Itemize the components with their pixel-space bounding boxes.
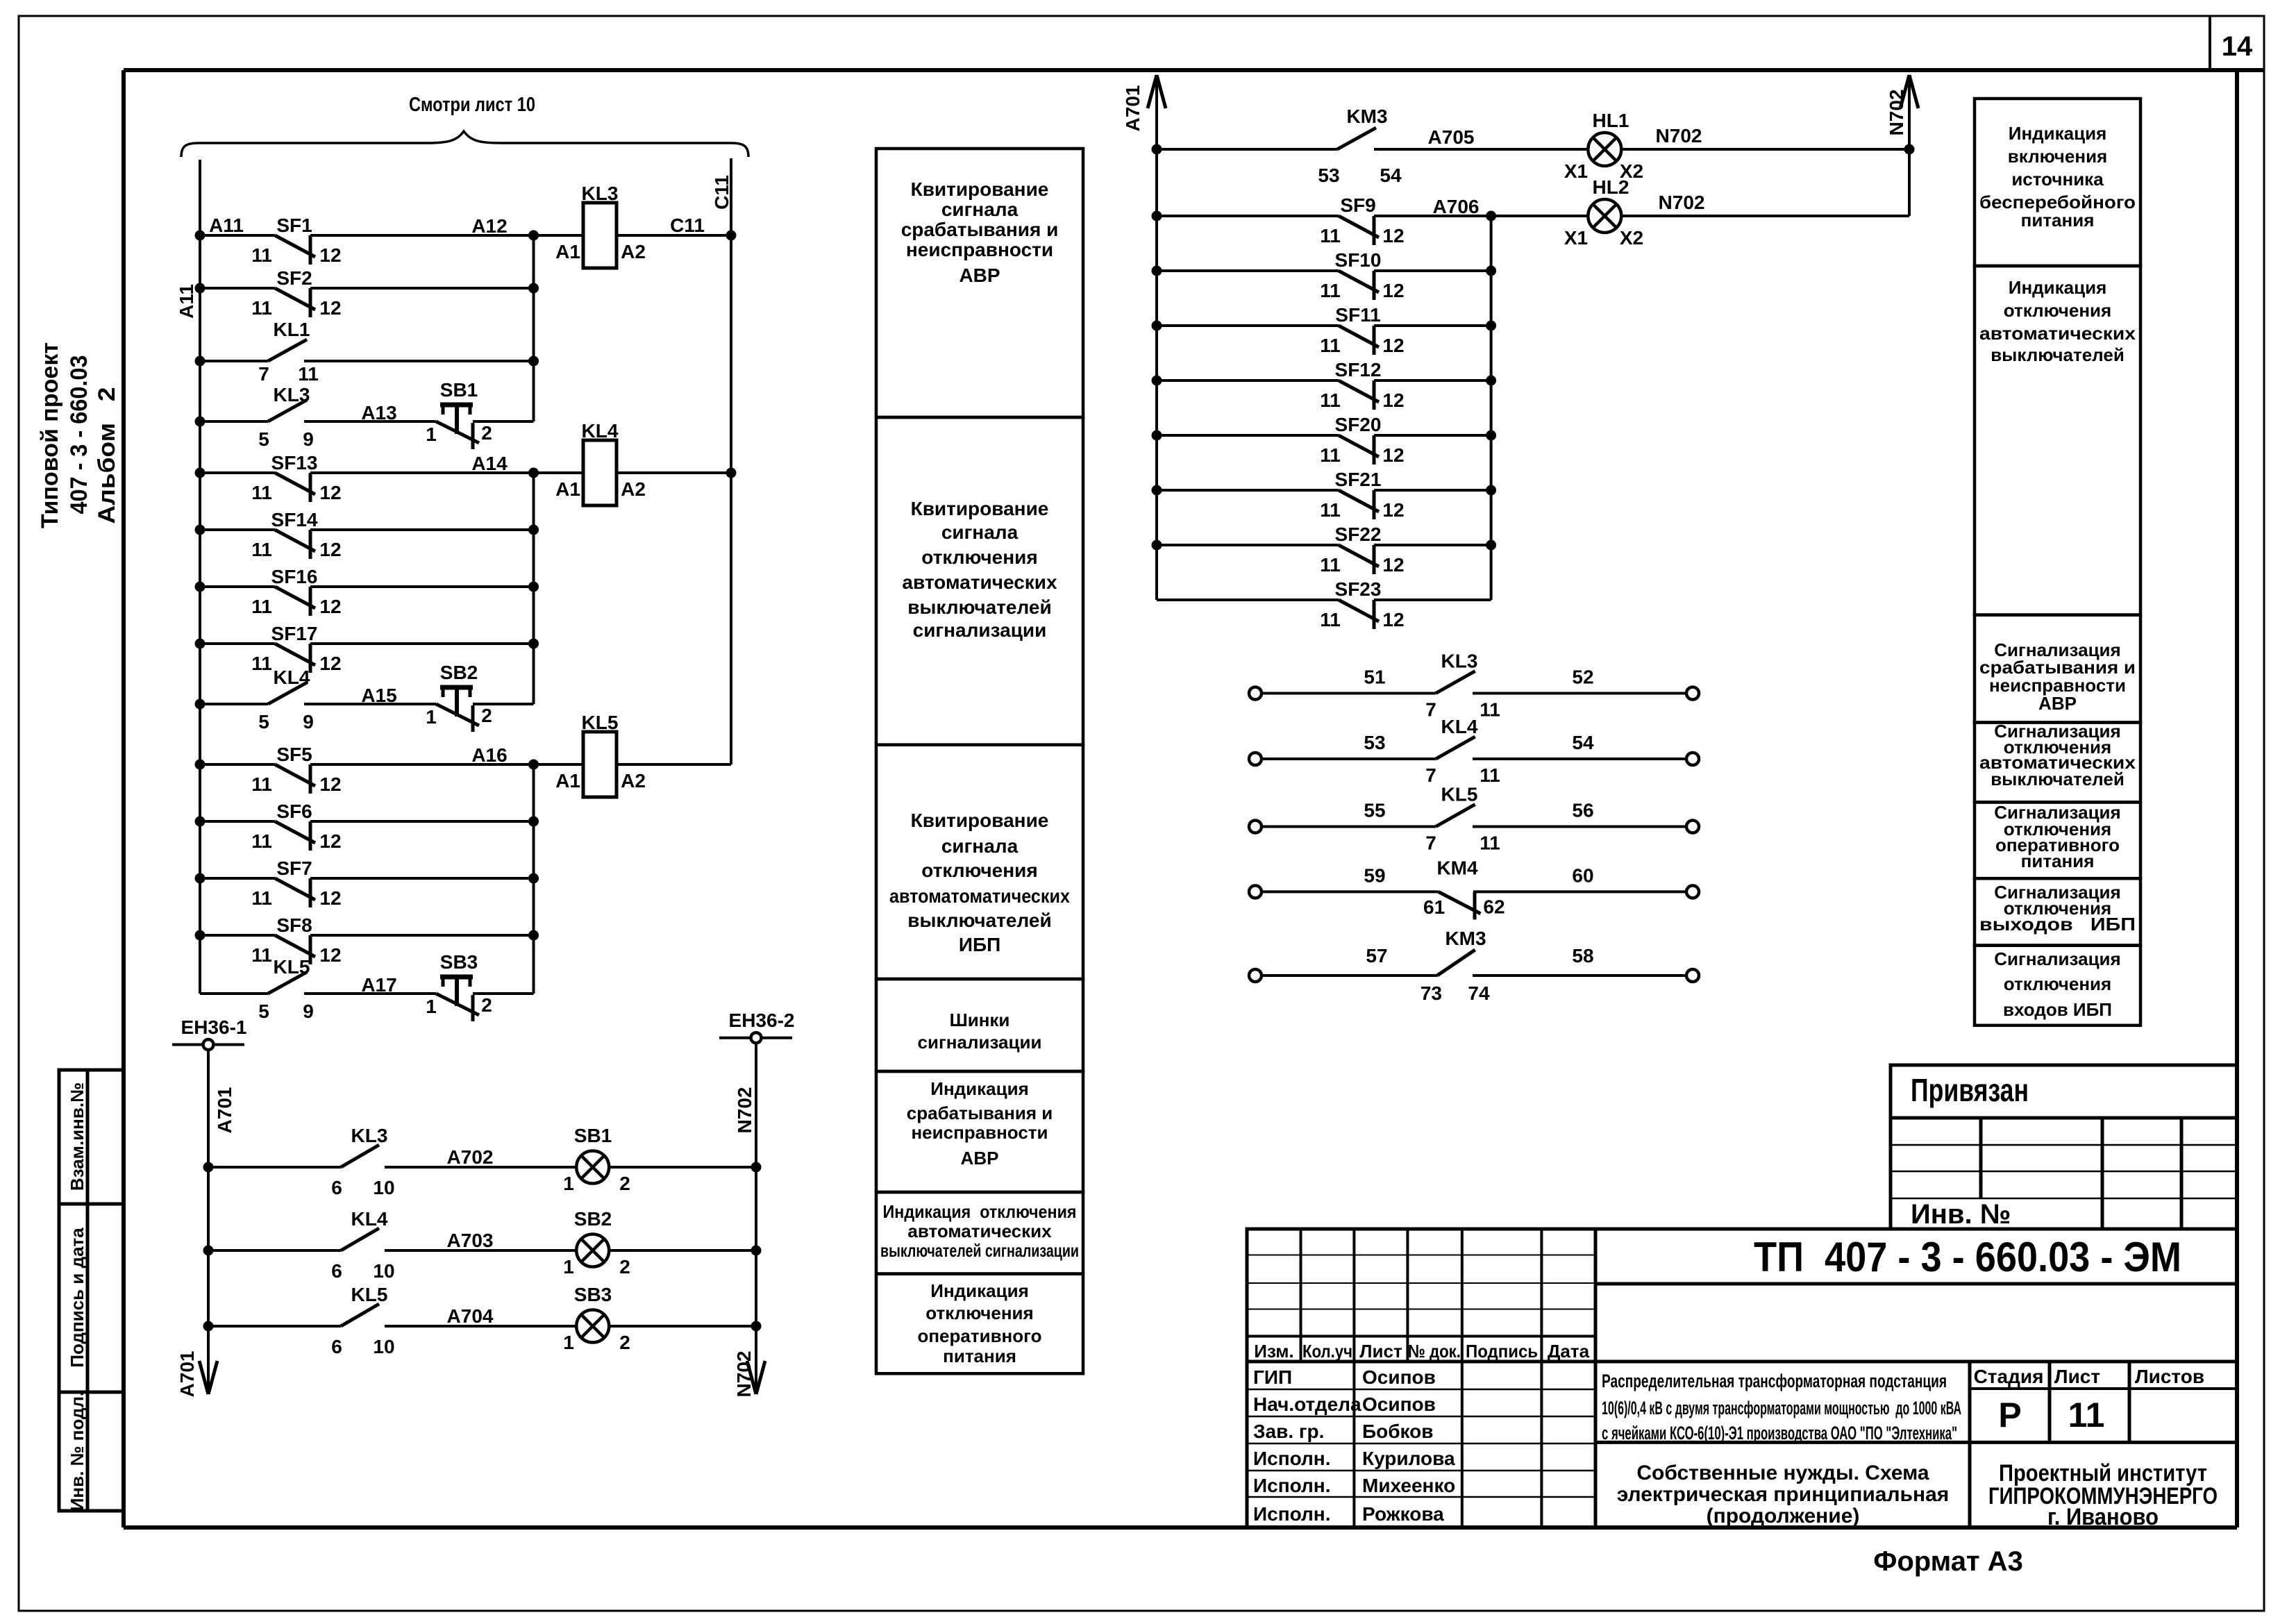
svg-text:11: 11 xyxy=(251,297,272,319)
svg-text:автоматоматических: автоматоматических xyxy=(889,885,1070,907)
svg-text:Индикация: Индикация xyxy=(2009,123,2107,144)
svg-text:KL5: KL5 xyxy=(1441,784,1478,805)
svg-text:SF20: SF20 xyxy=(1335,414,1382,435)
svg-text:58: 58 xyxy=(1572,945,1593,966)
svg-text:6: 6 xyxy=(331,1336,342,1357)
bus C11 xyxy=(730,158,732,764)
relay contact KL3 51-52 xyxy=(1249,687,1262,700)
svg-text:56: 56 xyxy=(1572,800,1593,821)
svg-text:Изм.: Изм. xyxy=(1254,1341,1293,1362)
svg-text:Лист: Лист xyxy=(1359,1341,1402,1362)
breaker contact SF9 xyxy=(1157,215,1339,217)
brace xyxy=(181,131,748,157)
lamp SB3 xyxy=(576,1310,609,1343)
svg-text:12: 12 xyxy=(319,297,341,319)
svg-text:2: 2 xyxy=(619,1332,630,1353)
svg-text:11: 11 xyxy=(251,887,272,909)
svg-text:12: 12 xyxy=(1382,444,1404,466)
svg-text:Листов: Листов xyxy=(2135,1366,2204,1387)
relay coil KL5 xyxy=(583,732,617,797)
wire KL3 A2 to C11 xyxy=(617,234,731,237)
svg-text:5: 5 xyxy=(258,711,269,733)
svg-text:62: 62 xyxy=(1483,896,1505,917)
svg-text:EH36-2: EH36-2 xyxy=(729,1010,795,1031)
svg-text:2: 2 xyxy=(481,994,492,1016)
svg-text:11: 11 xyxy=(1320,390,1341,411)
svg-text:Рожкова: Рожкова xyxy=(1362,1503,1444,1525)
svg-text:Осипов: Осипов xyxy=(1362,1393,1436,1415)
relay contact KM3 53-54 xyxy=(1157,148,1337,151)
svg-text:KL4: KL4 xyxy=(351,1208,388,1230)
svg-text:SF9: SF9 xyxy=(1340,194,1375,216)
lamp HL1 xyxy=(1588,133,1621,166)
svg-text:KL3: KL3 xyxy=(351,1125,388,1146)
svg-text:54: 54 xyxy=(1572,732,1594,753)
svg-text:Нач.отдела: Нач.отдела xyxy=(1253,1393,1361,1415)
title block main xyxy=(1247,1229,1595,1527)
svg-text:11: 11 xyxy=(1320,499,1341,521)
svg-text:SF14: SF14 xyxy=(271,509,318,530)
relay contact KL5 55-56 xyxy=(1249,821,1262,833)
svg-text:10: 10 xyxy=(373,1177,394,1198)
svg-text:11: 11 xyxy=(251,944,272,966)
relay contact KL3 xyxy=(208,1166,341,1169)
wire KL5 A2 to C11 xyxy=(617,763,731,766)
svg-text:C11: C11 xyxy=(711,175,732,210)
svg-text:A2: A2 xyxy=(621,478,646,500)
svg-text:SF1: SF1 xyxy=(276,215,312,236)
collector right ladder xyxy=(1490,216,1493,600)
svg-text:SB1: SB1 xyxy=(440,379,478,401)
svg-text:Р: Р xyxy=(1998,1396,2021,1434)
svg-text:Зав. гр.: Зав. гр. xyxy=(1253,1421,1324,1442)
relay coil KL4 xyxy=(583,440,617,505)
svg-text:2: 2 xyxy=(481,705,492,726)
lamp HL2 xyxy=(1588,199,1621,233)
svg-text:A16: A16 xyxy=(471,744,507,766)
svg-text:автоматических: автоматических xyxy=(902,571,1057,593)
breaker contact SF6 xyxy=(200,820,275,823)
svg-text:KM3: KM3 xyxy=(1346,106,1387,127)
svg-text:N702: N702 xyxy=(1886,90,1907,136)
svg-text:73: 73 xyxy=(1421,982,1442,1004)
svg-text:6: 6 xyxy=(331,1260,342,1282)
svg-text:A705: A705 xyxy=(1428,126,1475,148)
svg-text:SF6: SF6 xyxy=(276,801,312,822)
bus A701 right xyxy=(1155,75,1158,600)
svg-text:с ячейками КСО-6(10)-Э1 произв: с ячейками КСО-6(10)-Э1 производства ОАО… xyxy=(1602,1423,1957,1443)
svg-text:11: 11 xyxy=(251,653,272,674)
svg-text:12: 12 xyxy=(319,244,341,266)
breaker contact SF2 xyxy=(200,287,275,290)
svg-text:11: 11 xyxy=(251,244,272,266)
svg-text:A1: A1 xyxy=(555,478,580,500)
svg-text:10(6)/0,4 кВ с двумя трансформ: 10(6)/0,4 кВ с двумя трансформаторами мо… xyxy=(1602,1398,1961,1418)
svg-text:Смотри лист 10: Смотри лист 10 xyxy=(409,94,535,116)
svg-text:12: 12 xyxy=(1382,554,1404,576)
svg-text:1: 1 xyxy=(563,1173,574,1194)
svg-text:12: 12 xyxy=(1382,335,1404,356)
svg-text:A14: A14 xyxy=(471,453,508,474)
svg-text:Собственные нужды. Схема: Собственные нужды. Схема xyxy=(1636,1462,1929,1484)
svg-text:12: 12 xyxy=(1382,609,1404,630)
svg-text:Подпись и дата: Подпись и дата xyxy=(67,1228,87,1368)
svg-text:12: 12 xyxy=(1382,225,1404,246)
svg-text:EH36-1: EH36-1 xyxy=(181,1016,247,1038)
svg-text:A703: A703 xyxy=(447,1230,494,1251)
left attachment table xyxy=(59,1070,124,1511)
relay contact KM4 59-60 xyxy=(1249,885,1262,898)
relay contact KL4 xyxy=(208,1249,341,1252)
wire KL4 A2 to C11 xyxy=(617,471,731,474)
svg-text:оперативного: оперативного xyxy=(917,1325,1041,1346)
svg-text:59: 59 xyxy=(1364,864,1385,886)
lamp SB1 xyxy=(576,1151,609,1184)
svg-text:11: 11 xyxy=(251,596,272,617)
svg-text:X1: X1 xyxy=(1564,227,1588,249)
svg-text:A701: A701 xyxy=(214,1087,235,1134)
wire A14 xyxy=(534,471,584,474)
breaker contact SF23 xyxy=(1157,598,1339,601)
svg-text:11: 11 xyxy=(1480,699,1500,721)
svg-text:выключателей: выключателей xyxy=(1991,344,2125,365)
svg-text:Бобков: Бобков xyxy=(1362,1421,1433,1442)
button SB2 xyxy=(304,703,436,705)
svg-text:Исполн.: Исполн. xyxy=(1253,1503,1331,1525)
description cell xyxy=(1595,1441,2237,1444)
breaker contact SF14 xyxy=(200,528,275,531)
svg-text:12: 12 xyxy=(319,653,341,674)
svg-text:Квитирование: Квитирование xyxy=(911,498,1049,519)
svg-text:6: 6 xyxy=(331,1177,342,1198)
svg-text:12: 12 xyxy=(319,887,341,909)
svg-text:11: 11 xyxy=(1480,764,1500,786)
svg-text:53: 53 xyxy=(1318,165,1339,186)
svg-text:12: 12 xyxy=(319,830,341,852)
svg-text:A11: A11 xyxy=(209,215,244,236)
svg-text:Распределительная трансформато: Распределительная трансформаторная подст… xyxy=(1602,1371,1947,1391)
svg-text:Индикация: Индикация xyxy=(930,1078,1029,1099)
svg-text:Индикация: Индикация xyxy=(930,1280,1029,1301)
svg-text:Исполн.: Исполн. xyxy=(1253,1448,1331,1469)
svg-text:сигнала: сигнала xyxy=(941,521,1019,543)
svg-text:5: 5 xyxy=(258,428,269,450)
svg-text:N702: N702 xyxy=(1659,192,1705,213)
svg-text:2: 2 xyxy=(481,422,492,444)
collector group 3 xyxy=(533,764,535,994)
svg-text:ИБП: ИБП xyxy=(959,934,1000,955)
svg-text:74: 74 xyxy=(1468,982,1490,1004)
svg-text:Стадия: Стадия xyxy=(1974,1366,2044,1387)
svg-text:г. Иваново: г. Иваново xyxy=(2047,1504,2159,1530)
svg-text:(продолжение): (продолжение) xyxy=(1707,1505,1860,1527)
svg-text:SF17: SF17 xyxy=(271,623,318,644)
svg-text:12: 12 xyxy=(1382,280,1404,301)
svg-text:автоматических: автоматических xyxy=(1979,323,2136,344)
svg-text:53: 53 xyxy=(1364,732,1385,753)
svg-text:C11: C11 xyxy=(670,215,705,236)
svg-text:ГИП: ГИП xyxy=(1253,1366,1292,1388)
svg-text:SF22: SF22 xyxy=(1335,524,1382,545)
svg-text:12: 12 xyxy=(1382,499,1404,521)
svg-text:отключения: отключения xyxy=(2004,300,2111,321)
svg-text:61: 61 xyxy=(1423,896,1445,918)
svg-text:A2: A2 xyxy=(621,241,646,262)
svg-text:KL5: KL5 xyxy=(351,1284,388,1305)
svg-text:11: 11 xyxy=(1480,832,1500,854)
breaker contact SF1 xyxy=(200,234,275,237)
svg-text:Подпись: Подпись xyxy=(1466,1341,1538,1362)
svg-text:KL5: KL5 xyxy=(274,956,310,978)
svg-text:60: 60 xyxy=(1572,864,1593,886)
svg-text:Типовой проект: Типовой проект xyxy=(37,342,63,528)
svg-text:7: 7 xyxy=(258,363,269,385)
bus A701 left xyxy=(207,1051,210,1395)
svg-text:10: 10 xyxy=(373,1260,394,1282)
svg-text:X2: X2 xyxy=(1620,227,1643,249)
svg-text:2: 2 xyxy=(619,1256,630,1278)
svg-text:7: 7 xyxy=(1425,832,1436,854)
svg-text:ТП 407 - 3 - 660.03 - ЭМ: ТП 407 - 3 - 660.03 - ЭМ xyxy=(1754,1234,2181,1280)
svg-text:1: 1 xyxy=(563,1332,574,1353)
svg-text:7: 7 xyxy=(1425,699,1436,721)
svg-text:Взам.инв.№: Взам.инв.№ xyxy=(67,1082,87,1191)
svg-text:Дата: Дата xyxy=(1548,1341,1590,1362)
svg-text:выключателей: выключателей xyxy=(1991,769,2125,789)
collector group 1 xyxy=(533,235,535,421)
svg-text:SF13: SF13 xyxy=(271,452,318,474)
svg-text:Исполн.: Исполн. xyxy=(1253,1475,1331,1496)
function box column middle xyxy=(876,149,1083,417)
svg-text:11: 11 xyxy=(1320,554,1341,576)
svg-text:HL1: HL1 xyxy=(1593,110,1629,131)
svg-text:5: 5 xyxy=(258,1001,269,1022)
svg-text:N702: N702 xyxy=(734,1087,755,1134)
button SB3 xyxy=(304,992,436,995)
arrow N702 up xyxy=(1900,75,1909,108)
bus A11 xyxy=(199,160,201,994)
svg-text:SF10: SF10 xyxy=(1335,249,1382,271)
breaker contact SF12 xyxy=(1157,379,1339,382)
svg-text:выключателей: выключателей xyxy=(907,910,1051,931)
svg-text:Квитирование: Квитирование xyxy=(911,810,1049,831)
svg-text:Курилова: Курилова xyxy=(1362,1448,1455,1469)
svg-text:SF8: SF8 xyxy=(276,914,312,936)
svg-text:A706: A706 xyxy=(1433,196,1480,217)
arrow A701 up xyxy=(1148,75,1157,108)
svg-text:электрическая принципиальная: электрическая принципиальная xyxy=(1617,1483,1950,1506)
breaker contact SF7 xyxy=(200,877,275,880)
svg-text:KM4: KM4 xyxy=(1436,857,1478,878)
svg-text:срабатывания и: срабатывания и xyxy=(907,1103,1053,1123)
svg-text:52: 52 xyxy=(1572,667,1593,688)
svg-text:№ док.: № док. xyxy=(1408,1341,1461,1362)
wire A16 xyxy=(534,763,584,766)
breaker contact SF22 xyxy=(1157,544,1339,546)
svg-text:питания: питания xyxy=(2021,210,2095,231)
svg-text:источника: источника xyxy=(2011,169,2104,190)
svg-text:выходов ИБП: выходов ИБП xyxy=(1979,914,2136,935)
svg-text:SB2: SB2 xyxy=(574,1208,612,1230)
svg-text:10: 10 xyxy=(373,1336,394,1357)
svg-text:14: 14 xyxy=(2222,31,2253,62)
breaker contact SF13 xyxy=(200,471,275,474)
svg-text:9: 9 xyxy=(303,428,314,450)
breaker contact SF5 xyxy=(200,763,275,766)
svg-text:A1: A1 xyxy=(555,241,580,262)
relay contact KM3 57-58 xyxy=(1249,969,1262,982)
svg-text:KL4: KL4 xyxy=(582,420,619,442)
svg-text:сигнала: сигнала xyxy=(941,199,1019,220)
svg-text:2: 2 xyxy=(619,1173,630,1194)
svg-text:12: 12 xyxy=(319,482,341,503)
breaker contact SF16 xyxy=(200,585,275,588)
svg-text:неисправности: неисправности xyxy=(906,239,1053,260)
svg-text:51: 51 xyxy=(1364,667,1385,688)
function box column right xyxy=(1975,99,2140,266)
svg-text:KL4: KL4 xyxy=(274,667,310,688)
svg-text:SF16: SF16 xyxy=(271,566,318,587)
svg-text:11: 11 xyxy=(1320,335,1341,356)
svg-text:11: 11 xyxy=(251,482,272,503)
svg-text:1: 1 xyxy=(426,706,437,728)
svg-text:N702: N702 xyxy=(733,1351,755,1398)
terminal EH36-2 xyxy=(719,1037,792,1039)
svg-text:X1: X1 xyxy=(1564,160,1588,182)
relay contact KL5 xyxy=(208,1325,341,1328)
bus N702 left xyxy=(755,1044,757,1394)
breaker contact SF21 xyxy=(1157,489,1339,492)
svg-text:входов ИБП: входов ИБП xyxy=(2003,999,2112,1020)
svg-text:12: 12 xyxy=(319,773,341,795)
svg-text:9: 9 xyxy=(303,1001,314,1022)
svg-text:57: 57 xyxy=(1366,945,1387,966)
terminal EH36-1 xyxy=(172,1044,244,1046)
lamp SB2 xyxy=(576,1234,609,1267)
svg-text:11: 11 xyxy=(298,363,319,385)
svg-text:Инв. № подл.: Инв. № подл. xyxy=(67,1391,87,1512)
svg-text:Лист: Лист xyxy=(2054,1366,2100,1387)
svg-text:сигнала: сигнала xyxy=(941,835,1019,857)
svg-text:KL5: KL5 xyxy=(582,712,619,733)
svg-text:1: 1 xyxy=(426,424,437,445)
svg-text:питания: питания xyxy=(943,1346,1016,1366)
svg-text:12: 12 xyxy=(319,539,341,560)
arrow A701 down xyxy=(199,1361,208,1394)
relay contact KL1 xyxy=(200,360,268,362)
title block Привязан xyxy=(1891,1065,2237,1229)
collector group 2 xyxy=(533,473,535,704)
svg-text:АВР: АВР xyxy=(2038,693,2077,714)
svg-text:11: 11 xyxy=(251,830,272,852)
svg-text:Осипов: Осипов xyxy=(1362,1366,1436,1388)
svg-text:SB3: SB3 xyxy=(574,1284,612,1305)
svg-text:11: 11 xyxy=(251,539,272,560)
breaker contact SF11 xyxy=(1157,324,1339,327)
svg-text:54: 54 xyxy=(1380,165,1402,186)
svg-text:A702: A702 xyxy=(447,1146,494,1168)
svg-text:SF7: SF7 xyxy=(276,857,312,879)
svg-text:KM3: KM3 xyxy=(1445,928,1486,949)
breaker contact SF20 xyxy=(1157,434,1339,437)
svg-text:Квитирование: Квитирование xyxy=(911,178,1049,200)
svg-text:KL1: KL1 xyxy=(274,319,310,340)
svg-text:A12: A12 xyxy=(471,215,507,237)
svg-text:SF23: SF23 xyxy=(1335,578,1382,600)
svg-text:A1: A1 xyxy=(555,770,580,792)
svg-text:407 - 3 - 660.03: 407 - 3 - 660.03 xyxy=(66,355,92,514)
svg-text:HL2: HL2 xyxy=(1593,176,1629,198)
button SB1 xyxy=(304,420,436,423)
svg-text:Альбом 2: Альбом 2 xyxy=(94,387,120,524)
svg-text:SF21: SF21 xyxy=(1335,469,1382,490)
svg-text:12: 12 xyxy=(1382,390,1404,411)
svg-text:выключателей: выключателей xyxy=(907,596,1051,618)
svg-text:отключения: отключения xyxy=(2004,973,2111,994)
svg-text:отключения: отключения xyxy=(921,546,1037,568)
relay contact KL4 xyxy=(200,703,268,705)
svg-text:N702: N702 xyxy=(1656,125,1702,147)
svg-text:Кол.уч: Кол.уч xyxy=(1302,1341,1352,1362)
svg-text:SF11: SF11 xyxy=(1335,304,1380,326)
bus N702 right xyxy=(1908,75,1911,216)
breaker contact SF10 xyxy=(1157,269,1339,272)
svg-text:Сигнализация: Сигнализация xyxy=(1994,948,2120,969)
svg-text:неисправности: неисправности xyxy=(911,1122,1048,1143)
svg-text:KL3: KL3 xyxy=(1441,651,1478,672)
svg-text:55: 55 xyxy=(1364,800,1385,821)
svg-text:SB2: SB2 xyxy=(440,662,478,683)
svg-text:11: 11 xyxy=(251,773,272,795)
relay contact KL4 53-54 xyxy=(1249,753,1262,765)
svg-text:Индикация: Индикация xyxy=(2009,277,2107,298)
svg-text:отключения: отключения xyxy=(921,860,1037,881)
svg-text:Инв. №: Инв. № xyxy=(1911,1199,2011,1230)
svg-text:включения: включения xyxy=(2008,146,2107,167)
svg-text:11: 11 xyxy=(2068,1396,2105,1434)
svg-text:11: 11 xyxy=(1320,609,1341,630)
svg-text:A701: A701 xyxy=(176,1351,198,1398)
svg-text:SB1: SB1 xyxy=(574,1125,612,1146)
svg-text:KL4: KL4 xyxy=(1441,716,1478,737)
sheet number box 14 xyxy=(2209,16,2211,70)
svg-text:A11: A11 xyxy=(176,284,197,319)
relay contact KL3 xyxy=(200,420,268,423)
svg-text:SF2: SF2 xyxy=(276,267,312,289)
svg-text:питания: питания xyxy=(2021,851,2095,871)
svg-text:SB3: SB3 xyxy=(440,951,478,973)
svg-text:12: 12 xyxy=(319,596,341,617)
svg-text:11: 11 xyxy=(1320,225,1341,246)
svg-text:SF5: SF5 xyxy=(276,744,312,765)
breaker contact SF17 xyxy=(200,642,275,645)
svg-text:1: 1 xyxy=(563,1256,574,1278)
svg-text:Индикация отключения: Индикация отключения xyxy=(883,1201,1077,1222)
svg-text:A2: A2 xyxy=(621,770,646,792)
svg-text:SF12: SF12 xyxy=(1335,359,1382,380)
svg-text:Шинки: Шинки xyxy=(950,1010,1010,1030)
svg-text:АВР: АВР xyxy=(959,265,1000,286)
svg-text:Михеенко: Михеенко xyxy=(1362,1475,1455,1496)
relay contact KL5 xyxy=(200,992,268,995)
svg-text:сигнализации: сигнализации xyxy=(913,619,1047,641)
svg-text:A704: A704 xyxy=(447,1305,494,1327)
breaker contact SF8 xyxy=(200,934,275,937)
svg-text:A701: A701 xyxy=(1122,85,1143,132)
svg-text:Формат А3: Формат А3 xyxy=(1873,1546,2023,1577)
wire A12 xyxy=(534,234,584,237)
svg-text:9: 9 xyxy=(303,711,314,733)
